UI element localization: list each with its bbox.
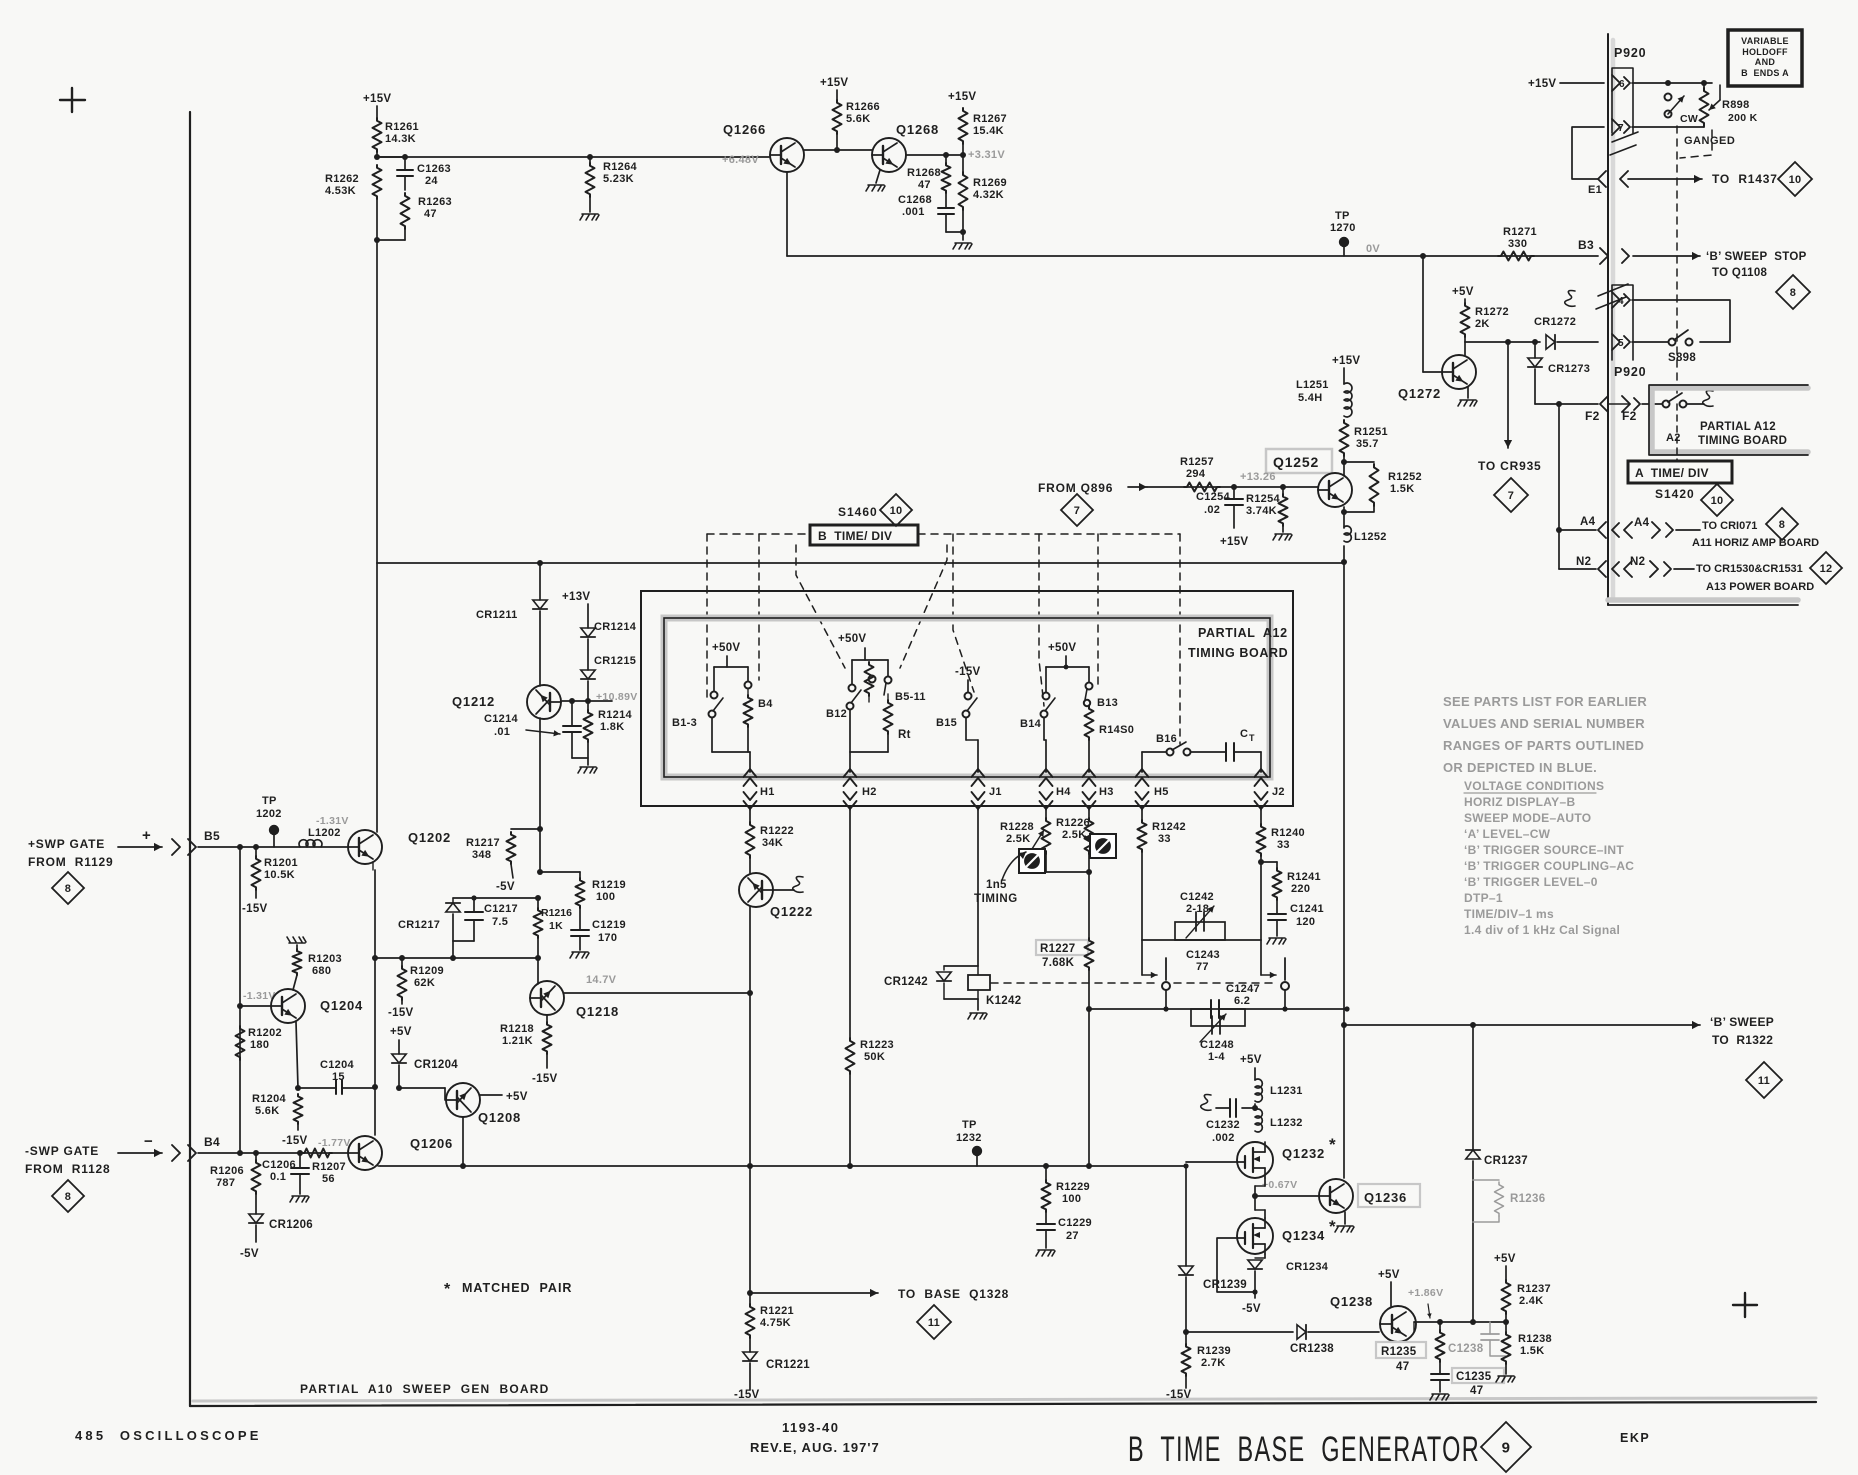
svg-text:+3.31V: +3.31V (968, 149, 1005, 161)
svg-text:1.8K: 1.8K (600, 721, 624, 733)
wire R1269 to gnd node (960, 210, 966, 235)
wire R1227 down (1086, 970, 1092, 1169)
svg-text:CW: CW (1680, 113, 1698, 125)
svg-text:B ENDS A: B ENDS A (1741, 68, 1789, 78)
label diamond 10 S1460 (880, 494, 912, 526)
svg-text:*: * (444, 1281, 451, 1298)
wire R1261 to node (374, 152, 380, 160)
svg-text:7.68K: 7.68K (1042, 957, 1075, 969)
svg-text:S898: S898 (1668, 352, 1696, 364)
svg-text:R1235: R1235 (1381, 1346, 1417, 1358)
svg-text:C1232: C1232 (1206, 1119, 1240, 1131)
svg-text:L1251: L1251 (1296, 379, 1329, 391)
transistor Q1206 (348, 1136, 453, 1170)
svg-text:294: 294 (1186, 468, 1206, 480)
label TO BASE Q1328 (898, 1287, 1009, 1301)
svg-text:+15V: +15V (1332, 355, 1360, 367)
inductor L1232 (1255, 1109, 1303, 1132)
svg-text:-15V: -15V (532, 1073, 558, 1085)
svg-text:Q1206: Q1206 (410, 1136, 453, 1151)
svg-text:0.1: 0.1 (270, 1171, 286, 1183)
svg-text:Q1268: Q1268 (896, 122, 939, 137)
switch wafer B15 (936, 680, 978, 772)
label F2 right (1622, 409, 1637, 423)
wire Q1202 collector top (376, 563, 378, 832)
svg-text:CR1211: CR1211 (476, 609, 518, 621)
node registration cross top-left (60, 88, 85, 112)
label CW (1680, 113, 1698, 125)
label Q1252 boxed (1266, 449, 1332, 473)
wire pin5 to S898 (1632, 341, 1668, 343)
capacitor C1219 (571, 919, 626, 950)
svg-text:B13: B13 (1097, 697, 1118, 709)
power +5V CR1204 (390, 1026, 412, 1038)
label -15V R1239 (1166, 1376, 1192, 1401)
wire H3 to R1227 (1088, 872, 1090, 938)
svg-text:FROM R1129: FROM R1129 (28, 855, 114, 869)
svg-text:R1209: R1209 (410, 965, 444, 977)
svg-text:Q1208: Q1208 (478, 1110, 521, 1125)
svg-text:14.3K: 14.3K (385, 133, 416, 145)
wire R1240 node (1258, 856, 1264, 940)
connector pin H3 (1083, 769, 1114, 810)
svg-text:B TIME BASE GENERATOR: B TIME BASE GENERATOR (1128, 1430, 1480, 1469)
svg-text:CR1239: CR1239 (1203, 1279, 1247, 1291)
wire F2 row (1535, 401, 1598, 407)
svg-text:680: 680 (312, 965, 331, 977)
svg-text:B TIME/ DIV: B TIME/ DIV (818, 529, 892, 543)
label A2 (1666, 432, 1681, 444)
svg-text:‘B’ TRIGGER LEVEL–0: ‘B’ TRIGGER LEVEL–0 (1464, 875, 1598, 889)
resistor R1263 (401, 193, 452, 229)
wire F2 junction down (1556, 404, 1562, 569)
svg-text:.02: .02 (1204, 504, 1220, 516)
svg-text:R1268: R1268 (907, 167, 941, 179)
power +5V R1237 (1494, 1253, 1516, 1280)
wire collector node to R1219 (540, 871, 580, 873)
svg-text:485 OSCILLOSCOPE: 485 OSCILLOSCOPE (75, 1428, 262, 1443)
svg-text:5.23K: 5.23K (603, 173, 634, 185)
svg-text:47: 47 (918, 179, 931, 191)
svg-text:1193-40: 1193-40 (782, 1420, 840, 1435)
svg-text:C1217: C1217 (484, 903, 518, 915)
svg-text:R1216: R1216 (541, 907, 572, 919)
svg-text:-1.31V: -1.31V (243, 990, 276, 1002)
label GANGED (1684, 135, 1735, 147)
voltage +10.89V (596, 691, 638, 703)
svg-text:4.32K: 4.32K (973, 189, 1004, 201)
inductor L1231 (1255, 1068, 1303, 1102)
potentiometer R1228 (1000, 818, 1051, 873)
wire connector bottom shading (1608, 597, 1798, 603)
resistor R1252 bracket (1344, 462, 1422, 512)
ground C1219 (570, 952, 589, 958)
ground C1235 (1430, 1394, 1449, 1400)
svg-text:H2: H2 (862, 786, 877, 798)
svg-text:+13V: +13V (562, 591, 590, 603)
resistor R1204 (252, 1093, 303, 1124)
svg-text:PARTIAL A10 SWEEP GEN BOAR: PARTIAL A10 SWEEP GEN BOARD (300, 1382, 549, 1396)
svg-text:J1: J1 (989, 786, 1002, 798)
svg-text:J2: J2 (1272, 786, 1285, 798)
transistor Q1268 (872, 122, 939, 172)
wire rail 1009 right (1219, 1006, 1350, 1011)
label diamond 7 Q896 (1061, 494, 1093, 526)
svg-text:T: T (1249, 733, 1255, 743)
wire to Q1208 base (399, 1088, 445, 1100)
svg-text:TIMING BOARD: TIMING BOARD (1188, 646, 1288, 660)
diode CR1206 (249, 1194, 313, 1242)
svg-text:‘B’ SWEEP STOP: ‘B’ SWEEP STOP (1706, 251, 1807, 263)
label S1460 (838, 505, 878, 519)
resistor R1214 (584, 701, 633, 742)
svg-text:1-4: 1-4 (1208, 1051, 1225, 1063)
ground C1241 (1267, 938, 1286, 944)
label -15V CR1221 (734, 1389, 760, 1401)
pin 7 P920 (1612, 119, 1630, 135)
wire Q1212 emitter node (562, 698, 612, 704)
svg-text:TO CR1530&CR1531: TO CR1530&CR1531 (1696, 563, 1803, 575)
resistor R1218 (500, 1015, 552, 1054)
svg-text:4.53K: 4.53K (325, 185, 356, 197)
wire collector row (1465, 339, 1540, 345)
box VARIABLE HOLDOFF (1728, 30, 1802, 86)
svg-text:B5: B5 (204, 829, 220, 843)
svg-text:0V: 0V (1366, 243, 1380, 255)
voltage -1.77V (318, 1137, 351, 1149)
resistor R1266 (833, 100, 880, 134)
svg-text:Q1232: Q1232 (1282, 1146, 1325, 1161)
svg-text:Q1212: Q1212 (452, 694, 495, 709)
box A TIME/DIV (1628, 461, 1732, 483)
svg-text:1202: 1202 (256, 808, 282, 820)
diode CR1238 (1290, 1325, 1379, 1355)
svg-text:R1266: R1266 (846, 101, 880, 113)
svg-text:‘B’ TRIGGER SOURCE–INT: ‘B’ TRIGGER SOURCE–INT (1464, 843, 1624, 857)
resistor R1237 (1502, 1280, 1551, 1314)
label B TIME BASE GENERATOR (1128, 1430, 1480, 1469)
label A13 POWER BOARD (1706, 581, 1814, 593)
wire R1222 to Q1222 (749, 858, 751, 873)
wire +15V to pin6 (1528, 78, 1604, 90)
svg-text:FROM R1128: FROM R1128 (25, 1162, 111, 1176)
svg-text:+15V: +15V (1528, 78, 1556, 90)
svg-text:A4: A4 (1634, 517, 1650, 529)
label diamond 11 Q1328 (917, 1305, 951, 1339)
voltage -1.31V b (243, 990, 276, 1002)
svg-text:R1222: R1222 (760, 825, 794, 837)
testpoint TP1270 (1330, 210, 1356, 256)
svg-text:787: 787 (216, 1177, 235, 1189)
resistor R1229 (1042, 1166, 1090, 1212)
svg-text:−: − (144, 1133, 153, 1150)
svg-text:R1263: R1263 (418, 196, 452, 208)
wire dashed drop B13 (1097, 534, 1099, 690)
board A12 inner outline (664, 618, 1270, 777)
wire H1 down (749, 808, 751, 822)
svg-text:170: 170 (598, 932, 617, 944)
label diamond 8 R1129 (52, 872, 84, 904)
wire pot link (1046, 871, 1089, 873)
label -5V CR1206 (240, 1248, 259, 1260)
power +5V Q1238 (1378, 1269, 1400, 1306)
capacitor C1242 trimmer box (1175, 891, 1225, 940)
svg-text:A11 HORIZ AMP BOARD: A11 HORIZ AMP BOARD (1692, 537, 1819, 549)
capacitor C1229 (1037, 1212, 1092, 1248)
wire R1219 to C1219 (579, 908, 581, 930)
svg-text:N2: N2 (1630, 556, 1645, 568)
label TO CRI071 (1702, 520, 1757, 532)
svg-text:Rt: Rt (898, 729, 911, 741)
ground Q1272 emitter (1458, 387, 1477, 406)
svg-text:330: 330 (1508, 238, 1527, 250)
label B4 (204, 1135, 220, 1149)
svg-text:7: 7 (1074, 505, 1080, 517)
svg-text:56: 56 (322, 1173, 335, 1185)
svg-text:C1243: C1243 (1186, 949, 1220, 961)
svg-text:CR1234: CR1234 (1286, 1261, 1329, 1273)
svg-text:E1: E1 (1588, 184, 1602, 196)
svg-text:15: 15 (332, 1071, 345, 1083)
wire E1 loop to pin7 (1572, 127, 1604, 179)
pin A4 (1559, 516, 1700, 538)
svg-text:L1231: L1231 (1270, 1085, 1303, 1097)
wire TO R1437 arrow (1628, 175, 1702, 183)
svg-text:*: * (1329, 1135, 1336, 1154)
svg-text:CR1215: CR1215 (594, 655, 636, 667)
resistor R1238 (1502, 1332, 1552, 1364)
svg-text:+6.48V: +6.48V (722, 154, 759, 166)
label diamond 10 R1437 (1778, 162, 1812, 196)
svg-text:9: 9 (1502, 1439, 1511, 1456)
wire R1228 to link (1045, 854, 1047, 872)
svg-text:R1264: R1264 (603, 161, 637, 173)
pin F2 chevrons (1600, 396, 1640, 412)
svg-text:8: 8 (1779, 519, 1785, 531)
svg-text:CR1238: CR1238 (1290, 1343, 1334, 1355)
capacitor C1204 (298, 1059, 375, 1094)
resistor R1269 (959, 172, 1007, 210)
label 1n5 TIMING (974, 852, 1026, 905)
voltage +13.26 (1240, 471, 1276, 483)
transistor Q1218 (530, 981, 619, 1019)
svg-text:Q1266: Q1266 (723, 122, 766, 137)
resistor R1222 (746, 822, 794, 858)
svg-text:200 K: 200 K (1728, 112, 1758, 124)
svg-text:Q1272: Q1272 (1398, 386, 1441, 401)
svg-text:11: 11 (1758, 1075, 1770, 1087)
wire B sweep rail (1344, 1021, 1700, 1029)
svg-text:B15: B15 (936, 717, 957, 729)
label -15V R1209 (388, 1000, 414, 1019)
svg-text:C1242: C1242 (1180, 891, 1214, 903)
connector P920 bracket top (1612, 68, 1633, 133)
svg-text:CR1206: CR1206 (269, 1219, 313, 1231)
svg-text:8: 8 (65, 1191, 71, 1203)
svg-text:+5V: +5V (1494, 1253, 1516, 1265)
svg-text:120: 120 (1296, 916, 1315, 928)
switch S898b upper (1665, 94, 1685, 118)
resistor R1241 (1273, 868, 1321, 900)
wire rail 958 (375, 955, 541, 961)
node bus to Q1272 (1420, 253, 1426, 259)
label MATCHED PAIR (444, 1281, 572, 1298)
wire Q1202 collector bottom (372, 862, 378, 1135)
svg-text:B4: B4 (204, 1135, 220, 1149)
svg-text:TO Q1108: TO Q1108 (1712, 267, 1768, 279)
wire connector bottom edge (1608, 604, 1798, 606)
wire R1237 node (1503, 1314, 1509, 1332)
svg-text:‘B’ SWEEP: ‘B’ SWEEP (1710, 1015, 1774, 1029)
svg-text:1K: 1K (549, 920, 563, 932)
wire dashed drop B14 (1039, 534, 1044, 706)
resistor R1202 (236, 1026, 282, 1060)
wire ganged dashed (1677, 126, 1712, 398)
svg-text:R1217: R1217 (466, 837, 500, 849)
diode CR1221 (743, 1338, 810, 1390)
svg-text:C1247: C1247 (1226, 983, 1260, 995)
svg-text:TP: TP (262, 795, 277, 807)
resistor R1201 (252, 847, 298, 890)
wire L1252 node down (1343, 562, 1345, 1009)
svg-text:P920: P920 (1614, 365, 1646, 379)
svg-text:R1252: R1252 (1388, 471, 1422, 483)
svg-text:R1219: R1219 (592, 879, 626, 891)
wire dashed bus right (918, 533, 1180, 535)
svg-text:HORIZ DISPLAY–B: HORIZ DISPLAY–B (1464, 795, 1575, 809)
wire dashed drop B16 (1179, 534, 1181, 744)
transistor Q1236 (1319, 1179, 1420, 1213)
svg-text:+13.26: +13.26 (1240, 471, 1276, 483)
label diamond 8 R1128 (52, 1180, 84, 1212)
resistor R1254 (1246, 487, 1288, 526)
svg-text:REV.E, AUG. 197'7: REV.E, AUG. 197'7 (750, 1440, 880, 1455)
board outline partial A12 top right (1649, 385, 1808, 455)
wire to CR935 arrow (1504, 342, 1512, 448)
svg-text:47: 47 (1396, 1361, 1409, 1373)
svg-text:R1251: R1251 (1354, 426, 1388, 438)
pin B3 chevrons (1600, 248, 1629, 264)
label F2 left (1585, 409, 1600, 423)
wire main left vertical (376, 240, 378, 563)
wire Q1204 emitter down (295, 1022, 301, 1091)
power +15V R1266 (820, 77, 848, 89)
svg-text:R1237: R1237 (1517, 1283, 1551, 1295)
voltage -1.31V a (316, 815, 349, 827)
svg-text:PARTIAL A12: PARTIAL A12 (1700, 421, 1776, 433)
svg-text:+0.67V: +0.67V (1262, 1179, 1297, 1191)
fet Q1232 (1237, 1135, 1336, 1178)
svg-text:R1236: R1236 (1510, 1193, 1545, 1205)
wire bottom board edge shadow (193, 1398, 1816, 1401)
svg-text:B4: B4 (758, 698, 773, 710)
wire Q1266 to Q1268 (804, 149, 872, 151)
label minus sign (144, 1133, 153, 1150)
svg-text:5.6K: 5.6K (255, 1105, 279, 1117)
resistor R1242 (1138, 820, 1186, 852)
label PARTIAL A12 TIMING BOARD right (1698, 421, 1787, 447)
power +50V wafer1 (712, 642, 740, 654)
svg-text:34K: 34K (762, 837, 783, 849)
wire dashed bus left (707, 533, 810, 535)
svg-text:OR DEPICTED IN BLUE.: OR DEPICTED IN BLUE. (1443, 760, 1597, 775)
power +15V C1254 (1220, 536, 1248, 548)
label PARTIAL A10 SWEEP GEN BOARD (300, 1382, 549, 1396)
wire +15V to R1261 (376, 106, 378, 118)
power +50V wafer2 (838, 633, 866, 645)
wire dashed fan right (900, 545, 947, 668)
wire R1216 to Q1218 (537, 938, 539, 984)
relay K1242 (884, 966, 1021, 1010)
inductor L1252 (1344, 526, 1387, 543)
svg-text:H4: H4 (1056, 786, 1071, 798)
svg-text:+15V: +15V (1220, 536, 1248, 548)
wire R1241 branch (1261, 862, 1277, 868)
ground K1242 (968, 1013, 987, 1019)
wire rail 1009 left (1089, 1008, 1211, 1010)
svg-text:PARTIAL A12: PARTIAL A12 (1198, 626, 1288, 640)
svg-text:TO R1437: TO R1437 (1712, 172, 1778, 186)
svg-text:A13 POWER BOARD: A13 POWER BOARD (1706, 581, 1814, 593)
cable slashes below pin7 (1610, 132, 1638, 155)
svg-text:AND: AND (1755, 57, 1776, 67)
svg-text:-5V: -5V (240, 1248, 259, 1260)
wire pin6 to R898 (1632, 80, 1712, 86)
svg-text:GANGED: GANGED (1684, 135, 1735, 147)
svg-text:+SWP GATE: +SWP GATE (28, 837, 105, 851)
voltage 14.7V (586, 974, 617, 986)
wire Q896 to base (1147, 484, 1318, 490)
wire CR1238 row (1186, 1331, 1293, 1333)
wire base row to Q1266 (377, 156, 769, 158)
wire 1345 to bsweep node (1341, 1009, 1347, 1028)
svg-text:+5V: +5V (506, 1091, 528, 1103)
wire wafer2 to H2 (849, 752, 851, 772)
capacitor C1232 (1201, 1095, 1255, 1145)
wire pin4 loop (1632, 300, 1730, 342)
label 1193-40 (782, 1420, 840, 1435)
svg-text:10.5K: 10.5K (264, 869, 295, 881)
svg-text:+15V: +15V (363, 93, 391, 105)
svg-text:B16: B16 (1156, 733, 1177, 745)
svg-text:‘B’ TRIGGER COUPLING–AC: ‘B’ TRIGGER COUPLING–AC (1464, 859, 1634, 873)
wire Q1222 down (747, 907, 753, 1296)
wire R1269 top (962, 155, 964, 172)
voltage +3.31V (968, 149, 1005, 161)
svg-text:+50V: +50V (838, 633, 866, 645)
svg-text:-5V: -5V (1242, 1303, 1261, 1315)
svg-text:-1.77V: -1.77V (318, 1137, 351, 1149)
wire Q1232 source node (1252, 1178, 1265, 1199)
wire Q1238 emitter row (1414, 1319, 1506, 1332)
wire Q1208 collector (460, 1117, 466, 1169)
label diamond 7 CR935 (1494, 478, 1528, 512)
svg-text:C: C (1240, 728, 1248, 740)
svg-text:R1238: R1238 (1518, 1333, 1552, 1345)
svg-text:R1206: R1206 (210, 1165, 244, 1177)
capacitor C1238 gray (1448, 1322, 1506, 1356)
label +SWP GATE FROM R1129 (28, 837, 114, 869)
svg-text:+5V: +5V (1240, 1054, 1262, 1066)
svg-text:12: 12 (1820, 563, 1833, 575)
svg-text:R1262: R1262 (325, 173, 359, 185)
svg-text:‘A’ LEVEL–CW: ‘A’ LEVEL–CW (1464, 827, 1551, 841)
resistor R1219 (576, 872, 626, 908)
svg-text:TP: TP (962, 1119, 977, 1131)
ground R1264 (580, 197, 599, 220)
transistor Q1266 (723, 122, 804, 172)
transistor Q1252 (1318, 462, 1352, 507)
